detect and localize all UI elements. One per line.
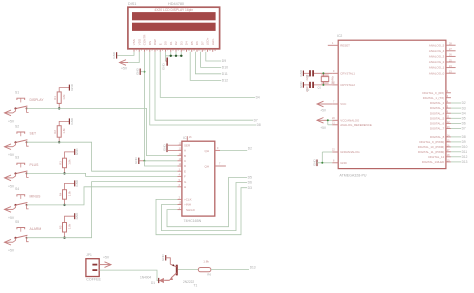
- shift register IC1 74HC165 body: [182, 141, 215, 216]
- svg-text:CONTR: CONTR: [143, 34, 147, 45]
- wire IC2 DIGITAL_12 to D12: [451, 156, 461, 158]
- wire VSS to GND: [117, 52, 134, 56]
- capacitor C1 22pF: [305, 70, 313, 80]
- wire IC2 DIGITAL_6 to D6: [451, 122, 461, 124]
- svg-text:D10: D10: [462, 145, 468, 149]
- svg-text:>CLK: >CLK: [184, 198, 192, 202]
- net label D10: [222, 66, 228, 70]
- svg-text:VCC/ANALOG: VCC/ANALOG: [340, 118, 360, 122]
- svg-text:D5: D5: [248, 176, 252, 180]
- resistor R1 1.8k: [53, 88, 69, 109]
- svg-text:DIS1: DIS1: [128, 2, 136, 6]
- wire diode to emitter: [164, 279, 169, 281]
- IC1 VCC pin 16 stub: [187, 136, 192, 141]
- svg-text:C2: C2: [306, 88, 310, 92]
- wire R/W to D7: [155, 52, 253, 120]
- svg-text:DIGITAL_12: DIGITAL_12: [428, 155, 444, 159]
- net label D7: [254, 118, 258, 122]
- IC1 pin QH-bar stub: [215, 163, 226, 166]
- resistor R4 1.8k: [58, 183, 74, 205]
- microcontroller IC2 ATMEGA328-PU body: [338, 40, 446, 168]
- wire S1 to IC1 pin B: [27, 108, 178, 155]
- IC2 left pin names: [340, 43, 372, 164]
- svg-text:DIGITAL_2: DIGITAL_2: [430, 101, 445, 105]
- svg-text:S2: S2: [15, 124, 19, 128]
- svg-text:VSS: VSS: [132, 39, 136, 45]
- svg-text:GND: GND: [75, 212, 79, 220]
- node S3 junction: [63, 172, 65, 174]
- svg-text:ANALOG_5: ANALOG_5: [429, 43, 445, 47]
- supply +5V at S5: [5, 239, 15, 252]
- switch S3 PLUS: [13, 156, 39, 178]
- LCD pin stubs: [134, 49, 213, 52]
- svg-text:A: A: [184, 149, 186, 153]
- svg-text:Q1: Q1: [318, 85, 322, 89]
- ground GND at LCD data bus: [161, 58, 167, 71]
- net label D8: [257, 123, 261, 127]
- wire S3 to IC1 pin F: [27, 173, 178, 176]
- net label D6: [462, 122, 466, 126]
- node IC2 GND junction: [321, 162, 323, 164]
- wire AREF pair: [328, 120, 332, 125]
- svg-text:DIGITAL_5: DIGITAL_5: [430, 116, 445, 120]
- svg-text:DIGITAL_0_(RX): DIGITAL_0_(RX): [422, 91, 444, 95]
- net label D4: [462, 111, 466, 115]
- node S1 junction: [58, 107, 60, 109]
- LCD designator DIS1: [128, 2, 136, 6]
- svg-text:1.8k: 1.8k: [62, 128, 66, 134]
- svg-text:QH: QH: [205, 164, 210, 168]
- svg-text:H: H: [184, 185, 186, 189]
- svg-text:GND: GND: [162, 144, 166, 152]
- svg-text:DIGITAL_6: DIGITAL_6: [430, 122, 445, 126]
- supply +5V at S4: [5, 207, 15, 220]
- svg-text:VDD: VDD: [137, 38, 141, 45]
- svg-text:D13: D13: [250, 265, 256, 269]
- svg-text:ANALOG_1: ANALOG_1: [429, 66, 445, 70]
- LCD character row 1: [132, 12, 216, 20]
- node S2 junction: [58, 141, 60, 143]
- node crystal bottom junction: [322, 84, 324, 86]
- svg-text:VCC: VCC: [340, 102, 346, 106]
- svg-text:R/W: R/W: [153, 39, 157, 45]
- ground GND at R2: [69, 117, 73, 125]
- svg-text:D4: D4: [462, 111, 466, 115]
- svg-text:SET: SET: [30, 132, 37, 136]
- svg-text:+5V: +5V: [8, 119, 15, 123]
- net label D5: [462, 117, 466, 121]
- svg-text:R6: R6: [207, 272, 211, 276]
- svg-text:+5V: +5V: [103, 256, 110, 260]
- supply +5V at IC2 VCC: [317, 101, 332, 112]
- svg-text:DIGITAL_9_(PWM): DIGITAL_9_(PWM): [419, 140, 444, 144]
- IC1 left pin names: [184, 143, 191, 189]
- wire VDD to +5V: [128, 52, 140, 63]
- svg-text:LED-: LED-: [211, 38, 215, 45]
- resistor R2 1.8k: [53, 121, 69, 142]
- svg-text:R1: R1: [53, 96, 57, 100]
- svg-text:+5V: +5V: [121, 67, 128, 71]
- svg-text:1.8k: 1.8k: [203, 259, 209, 263]
- wire LCD D5 to D11: [195, 52, 221, 74]
- svg-text:D10: D10: [222, 66, 228, 70]
- net label D13: [462, 160, 468, 164]
- svg-text:D4: D4: [185, 41, 189, 45]
- wire CONTR vertical: [144, 52, 146, 161]
- svg-text:ANALOG_4: ANALOG_4: [429, 49, 445, 53]
- IC2 digital pin names: [418, 91, 445, 164]
- node S5 junction: [63, 237, 65, 239]
- wire LCD D4 to D12: [190, 52, 221, 81]
- svg-text:JP1: JP1: [86, 253, 92, 257]
- wire IC2 DIGITAL_11_(PWM) to D11: [451, 151, 461, 153]
- svg-text:B: B: [184, 154, 186, 158]
- transistor T1 2N2222: [164, 264, 197, 287]
- svg-text:D4: D4: [256, 96, 260, 100]
- net label D11: [462, 150, 468, 154]
- svg-text:D12: D12: [462, 155, 468, 159]
- wire IC2 DIGITAL_8 to D8: [451, 136, 461, 138]
- ground GND at IC1 SER/A: [162, 144, 177, 153]
- svg-text:DIGITAL_1_(TX): DIGITAL_1_(TX): [423, 96, 445, 100]
- IC1 bottom pin stubs and numbers: [177, 197, 182, 210]
- svg-text:74HC165N: 74HC165N: [184, 219, 202, 223]
- resistor R5 1.8k: [58, 216, 74, 238]
- svg-text:MINUS: MINUS: [30, 194, 42, 198]
- IC1 right pin names: [205, 149, 210, 168]
- svg-text:D5: D5: [190, 41, 194, 45]
- wire R6 to D13: [211, 269, 249, 271]
- node AREF junction: [327, 119, 329, 121]
- wire CRYSTAL2: [304, 84, 332, 86]
- svg-text:+5V: +5V: [8, 216, 15, 220]
- svg-text:RS: RS: [148, 41, 152, 45]
- wire IC2 DIGITAL_10_(PWM) to D10: [451, 146, 461, 148]
- svg-text:D9: D9: [222, 59, 226, 63]
- svg-text:GND: GND: [136, 67, 140, 75]
- wire IC2 DIGITAL_3 to D3: [451, 107, 461, 109]
- svg-text:E: E: [158, 43, 162, 45]
- supply +5V at LCD VDD: [120, 60, 129, 71]
- svg-text:DIGITAL_10_(PWM): DIGITAL_10_(PWM): [418, 145, 444, 149]
- switch S2 SET: [13, 124, 36, 146]
- svg-text:ANALOG_0: ANALOG_0: [429, 71, 445, 75]
- IC2 analog pin names and stubs: [429, 43, 456, 76]
- wire D0-D3 ground bus: [166, 52, 183, 61]
- LCD pin numbers 1-16: [136, 50, 217, 52]
- ground GND at IC2: [312, 159, 332, 167]
- svg-text:D9: D9: [462, 140, 466, 144]
- svg-text:DISPLAY: DISPLAY: [30, 98, 45, 102]
- svg-text:R3: R3: [58, 161, 62, 165]
- wire CRYSTAL1: [304, 72, 332, 74]
- wire IC2 DIGITAL_4 to D4: [451, 112, 461, 114]
- svg-text:R2: R2: [53, 130, 57, 134]
- wire IC1 SH/LD to D5: [167, 178, 247, 227]
- svg-text:D1: D1: [169, 41, 173, 45]
- svg-text:4X20 LCD DISPLAY 16pin: 4X20 LCD DISPLAY 16pin: [154, 8, 193, 12]
- LCD character row 2: [132, 23, 216, 31]
- svg-text:SER: SER: [184, 143, 191, 147]
- svg-text:+5V: +5V: [320, 126, 327, 130]
- svg-text:D8: D8: [462, 135, 466, 139]
- wire S4 to IC1 pin H: [27, 187, 178, 205]
- svg-text:>INH: >INH: [184, 203, 191, 207]
- wire IC1 INH to D6: [162, 183, 248, 231]
- ground GND at C2: [299, 81, 304, 89]
- wire IC1 CLK to D3: [156, 188, 247, 235]
- ground GND at CONTR: [136, 67, 141, 75]
- net label D3: [248, 186, 252, 190]
- wire RS to D8: [150, 52, 256, 125]
- svg-text:RESET: RESET: [340, 43, 350, 47]
- svg-text:ALARM: ALARM: [30, 227, 42, 231]
- svg-text:D6: D6: [195, 41, 199, 45]
- svg-text:D2: D2: [174, 41, 178, 45]
- svg-text:COFFEE: COFFEE: [86, 278, 101, 282]
- svg-text:DIGITAL_7: DIGITAL_7: [430, 127, 445, 131]
- wire IC2 DIGITAL_2 to D2: [451, 102, 461, 104]
- IC2 value ATMEGA328-PU: [339, 174, 366, 178]
- ground GND at IC1 C/D: [134, 157, 144, 165]
- svg-text:QH: QH: [205, 149, 210, 153]
- ground GND at R1: [69, 83, 73, 91]
- net label D13: [250, 265, 256, 269]
- ground GND at T1 collector: [161, 254, 170, 265]
- node D2 junction: [175, 55, 177, 57]
- svg-text:DIGITAL_11_(PWM): DIGITAL_11_(PWM): [418, 150, 444, 154]
- supply +5V at S3: [5, 175, 15, 188]
- resistor R3 1.8k: [58, 152, 74, 174]
- switch S1 DISPLAY: [13, 91, 44, 113]
- LCD display DIS1 HD44780 body: [128, 7, 220, 49]
- svg-text:D7: D7: [254, 118, 258, 122]
- IC1 value 74HC165N: [184, 219, 202, 223]
- svg-text:D1: D1: [151, 281, 155, 285]
- net label D12: [462, 155, 468, 159]
- supply +5V at S1: [5, 110, 15, 123]
- svg-text:D5: D5: [462, 117, 466, 121]
- net label D11: [222, 72, 228, 76]
- svg-text:SH/LD: SH/LD: [186, 208, 196, 212]
- svg-text:GND: GND: [161, 63, 165, 71]
- wire E to D4: [160, 52, 255, 98]
- svg-text:GND: GND: [299, 69, 303, 77]
- LCD value HD44780: [168, 2, 184, 6]
- svg-text:GND: GND: [75, 179, 79, 187]
- svg-text:S4: S4: [15, 187, 19, 191]
- net label D10: [462, 145, 468, 149]
- svg-text:HD44780: HD44780: [168, 2, 184, 6]
- svg-text:1.8k: 1.8k: [67, 159, 71, 165]
- net label D3: [462, 106, 466, 110]
- svg-text:DIGITAL_13/LED: DIGITAL_13/LED: [422, 160, 444, 164]
- supply +5V at S2: [5, 144, 15, 157]
- svg-text:D3: D3: [248, 186, 252, 190]
- svg-text:S1: S1: [15, 91, 19, 95]
- ground GND at LCD VSS: [112, 51, 117, 59]
- svg-text:D7: D7: [200, 41, 204, 45]
- svg-text:ANALOG_REFERENCE: ANALOG_REFERENCE: [340, 123, 372, 127]
- svg-text:GND: GND: [312, 159, 316, 167]
- svg-text:+5V: +5V: [8, 184, 15, 188]
- node S4 junction: [63, 204, 65, 206]
- IC2 reset pin stub: [328, 42, 338, 45]
- wire IC2 DIGITAL_13/LED to D13: [451, 161, 461, 163]
- svg-text:CRYSTAL1: CRYSTAL1: [340, 71, 355, 75]
- supply +5V at IC2 AREF: [317, 118, 328, 130]
- ground GND at R3: [75, 148, 79, 156]
- svg-text:+5V: +5V: [8, 249, 15, 253]
- svg-text:C1: C1: [306, 74, 310, 78]
- svg-text:1.8k: 1.8k: [62, 94, 66, 100]
- wire S2 to IC1 pin E: [27, 142, 178, 171]
- svg-text:D3: D3: [179, 41, 183, 45]
- wire IC2 DIGITAL_5 to D5: [451, 117, 461, 119]
- svg-text:16MHz: 16MHz: [331, 75, 335, 84]
- svg-text:GND/ANALOG: GND/ANALOG: [340, 150, 360, 154]
- IC1 left pin stubs and numbers: [177, 142, 182, 187]
- svg-text:DIGITAL_4: DIGITAL_4: [430, 111, 445, 115]
- diode D1 1N4004: [140, 276, 164, 285]
- svg-text:LED+: LED+: [206, 37, 210, 45]
- svg-text:D2: D2: [462, 101, 466, 105]
- svg-text:S5: S5: [15, 220, 19, 224]
- svg-text:E: E: [184, 169, 186, 173]
- connector JP1 COFFEE: [86, 253, 102, 281]
- IC1 pin QH stub: [215, 147, 220, 150]
- svg-text:IC2: IC2: [337, 34, 342, 38]
- svg-text:D7: D7: [462, 127, 466, 131]
- ground GND at R4: [75, 179, 79, 187]
- supply +5V at JP1 pin1: [99, 256, 111, 268]
- svg-text:1.8k: 1.8k: [67, 223, 71, 229]
- wire IC2 DIGITAL_7 to D7: [451, 128, 461, 130]
- net label D5: [248, 176, 252, 180]
- node IC1 pin C junction: [144, 160, 178, 166]
- svg-text:D2: D2: [248, 147, 252, 151]
- capacitor C2 22pF: [305, 82, 313, 92]
- svg-text:D6: D6: [248, 181, 252, 185]
- wire GND/ANALOG pair: [322, 152, 332, 163]
- net label D7: [462, 127, 466, 131]
- LCD pin name labels: [132, 34, 215, 45]
- svg-text:GND: GND: [70, 83, 74, 91]
- ground GND at R5: [75, 212, 79, 220]
- svg-text:R5: R5: [58, 225, 62, 229]
- svg-text:F: F: [184, 175, 186, 179]
- svg-text:D11: D11: [222, 72, 228, 76]
- svg-text:GND: GND: [340, 161, 346, 165]
- svg-text:D12: D12: [222, 79, 228, 83]
- svg-text:CRYSTAL2: CRYSTAL2: [340, 83, 355, 87]
- svg-text:DIGITAL_8: DIGITAL_8: [430, 135, 445, 139]
- wire JP1 pin2 to diode: [99, 270, 158, 280]
- svg-text:D0: D0: [164, 41, 168, 45]
- svg-text:D13: D13: [462, 160, 468, 164]
- net label D4: [256, 96, 260, 100]
- svg-text:GND: GND: [161, 254, 165, 262]
- svg-text:ATMEGA328-PU: ATMEGA328-PU: [339, 174, 366, 178]
- switch S5 ALARM: [13, 220, 41, 242]
- IC2 crystal pin stubs: [332, 70, 338, 85]
- IC2 digital pin stubs and numbers: [446, 90, 451, 162]
- svg-text:GND: GND: [112, 51, 116, 59]
- wire LCD D7 to D9: [206, 52, 221, 61]
- net label D2: [462, 101, 466, 105]
- svg-text:+5V: +5V: [8, 153, 15, 157]
- net label D12: [222, 79, 228, 83]
- svg-text:GND: GND: [134, 157, 138, 165]
- svg-text:PLUS: PLUS: [30, 163, 40, 167]
- IC2 designator: [337, 34, 342, 38]
- net label D6: [248, 181, 252, 185]
- wire T1 base to R6: [178, 269, 198, 271]
- svg-text:1.8k: 1.8k: [67, 190, 71, 196]
- svg-text:R4: R4: [58, 192, 62, 196]
- wire IC2 DIGITAL_9_(PWM) to D9: [451, 141, 461, 143]
- svg-text:D6: D6: [462, 122, 466, 126]
- svg-text:GND: GND: [70, 117, 74, 125]
- svg-text:D8: D8: [257, 123, 261, 127]
- svg-text:GND: GND: [75, 148, 79, 156]
- svg-text:+5V: +5V: [320, 108, 327, 112]
- svg-text:GND: GND: [299, 81, 303, 89]
- svg-text:D11: D11: [462, 150, 468, 154]
- node D3 junction: [180, 55, 182, 57]
- node CONTR-GND tap: [141, 71, 146, 73]
- svg-text:S3: S3: [15, 156, 19, 160]
- switch S4 MINUS: [13, 187, 41, 209]
- net label D9: [222, 59, 226, 63]
- svg-text:D3: D3: [462, 106, 466, 110]
- net label D9: [462, 140, 466, 144]
- node crystal top junction: [322, 72, 324, 74]
- wire IC1 QH to D2: [220, 147, 252, 151]
- node D1 junction: [170, 55, 172, 57]
- svg-text:ANALOG_3: ANALOG_3: [429, 55, 445, 59]
- svg-text:DIGITAL_3: DIGITAL_3: [430, 106, 445, 110]
- IC1 designator: [183, 136, 188, 140]
- IC1 bottom-left pin names: [184, 198, 196, 212]
- svg-text:T1: T1: [194, 284, 198, 288]
- IC2 power pin stubs: [332, 101, 338, 163]
- ground GND at C1: [299, 69, 304, 77]
- svg-text:1N4004: 1N4004: [140, 276, 151, 280]
- svg-text:ANALOG_2: ANALOG_2: [429, 60, 445, 64]
- net label D8: [462, 135, 466, 139]
- crystal Q1 16MHz: [318, 73, 335, 89]
- wire S5 to IC1 pin G: [27, 182, 178, 238]
- wire LCD D6 to D10: [201, 52, 222, 68]
- resistor R6 1.8k: [198, 259, 211, 276]
